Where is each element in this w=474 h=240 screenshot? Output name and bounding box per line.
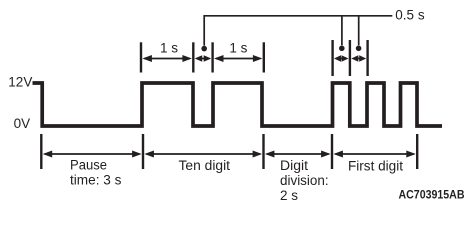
svg-text:1 s: 1 s [229, 40, 247, 55]
tick: ten-digit pulse 1 end [192, 42, 194, 72]
arrow: pause time span [43, 151, 142, 158]
svg-text:Ten digit: Ten digit [179, 158, 231, 173]
tick: pause start [40, 134, 42, 169]
svg-text:0.5 s: 0.5 s [395, 7, 425, 22]
arrow: 0.5 s gap between ten-digit pulses [195, 55, 212, 62]
tick: first digit end [416, 134, 418, 169]
svg-text:Pause: Pause [70, 158, 107, 173]
svg-text:time: 3 s: time: 3 s [70, 173, 122, 188]
arrow: 1 s (pulse 1 width) [142, 55, 192, 62]
callout line to 0.5 s label [204, 16, 392, 46]
svg-text:AC703915AB: AC703915AB [399, 188, 465, 202]
tick: first-digit pulse end [349, 40, 351, 76]
arrow: 0.5 s first-digit pulse width [334, 55, 349, 62]
svg-text:12V: 12V [8, 74, 32, 89]
svg-text:Digit: Digit [280, 158, 308, 173]
callout dot: ten-digit gap midpoint [201, 46, 207, 52]
svg-text:division:: division: [280, 173, 329, 188]
svg-text:First digit: First digit [348, 158, 403, 173]
waveform: 12V/0V flash-code signal [33, 83, 443, 126]
svg-text:1 s: 1 s [160, 40, 178, 55]
svg-text:2 s: 2 s [280, 188, 298, 203]
tick: ten-digit pulse 2 start [211, 42, 213, 72]
callout dot: first-digit pulse midpoint [339, 46, 345, 52]
tick: first-digit gap end [366, 40, 368, 76]
arrow: first digit span [333, 151, 415, 158]
tick: pause end / ten digit start [142, 134, 144, 169]
arrow: ten digit span [144, 151, 262, 158]
tick: digit division end / first digit start [331, 134, 333, 169]
tick: ten digit end / digit division start [262, 134, 264, 169]
tick: ten-digit pulse 1 start [140, 42, 142, 72]
tick: first-digit pulse start [331, 40, 333, 76]
arrow: 1 s (pulse 2 width) [214, 55, 262, 62]
arrow: 0.5 s first-digit gap width [351, 55, 366, 62]
arrow: digit division span [265, 151, 331, 158]
tick: ten-digit pulse 2 end [263, 42, 265, 72]
svg-text:0V: 0V [14, 116, 31, 131]
callout dot: first-digit gap midpoint [356, 46, 362, 52]
